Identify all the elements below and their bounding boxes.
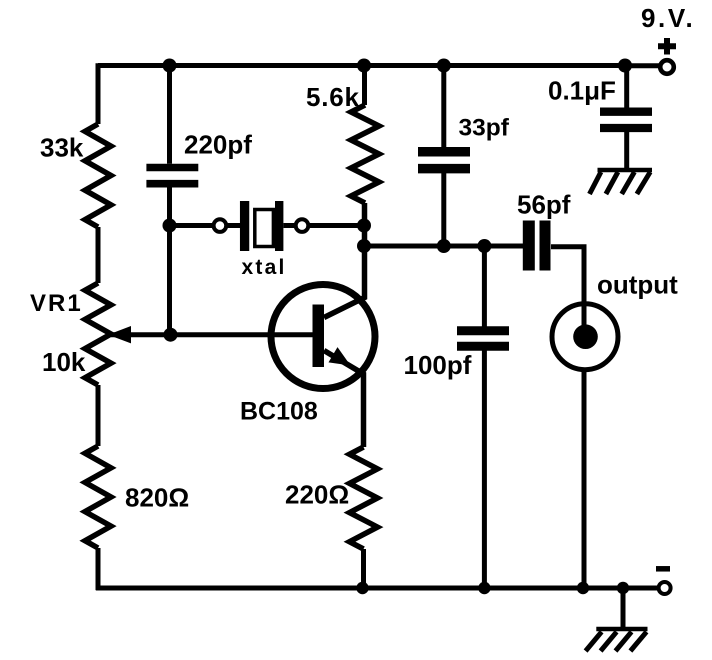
svg-text:33k: 33k (40, 133, 84, 163)
svg-text:9.V.: 9.V. (641, 3, 695, 33)
svg-text:820Ω: 820Ω (125, 483, 189, 513)
svg-text:output: output (597, 270, 678, 300)
svg-text:0.1μF: 0.1μF (548, 76, 616, 106)
svg-text:220Ω: 220Ω (285, 480, 349, 510)
svg-text:5.6k: 5.6k (306, 82, 360, 112)
svg-text:VR1: VR1 (30, 290, 83, 317)
svg-text:56pf: 56pf (517, 190, 571, 220)
svg-text:10k: 10k (42, 347, 86, 377)
svg-text:33pf: 33pf (459, 115, 510, 142)
svg-text:xtal: xtal (242, 256, 287, 279)
svg-text:220pf: 220pf (184, 130, 252, 160)
svg-text:100pf: 100pf (404, 350, 472, 380)
svg-text:BC108: BC108 (240, 398, 318, 426)
